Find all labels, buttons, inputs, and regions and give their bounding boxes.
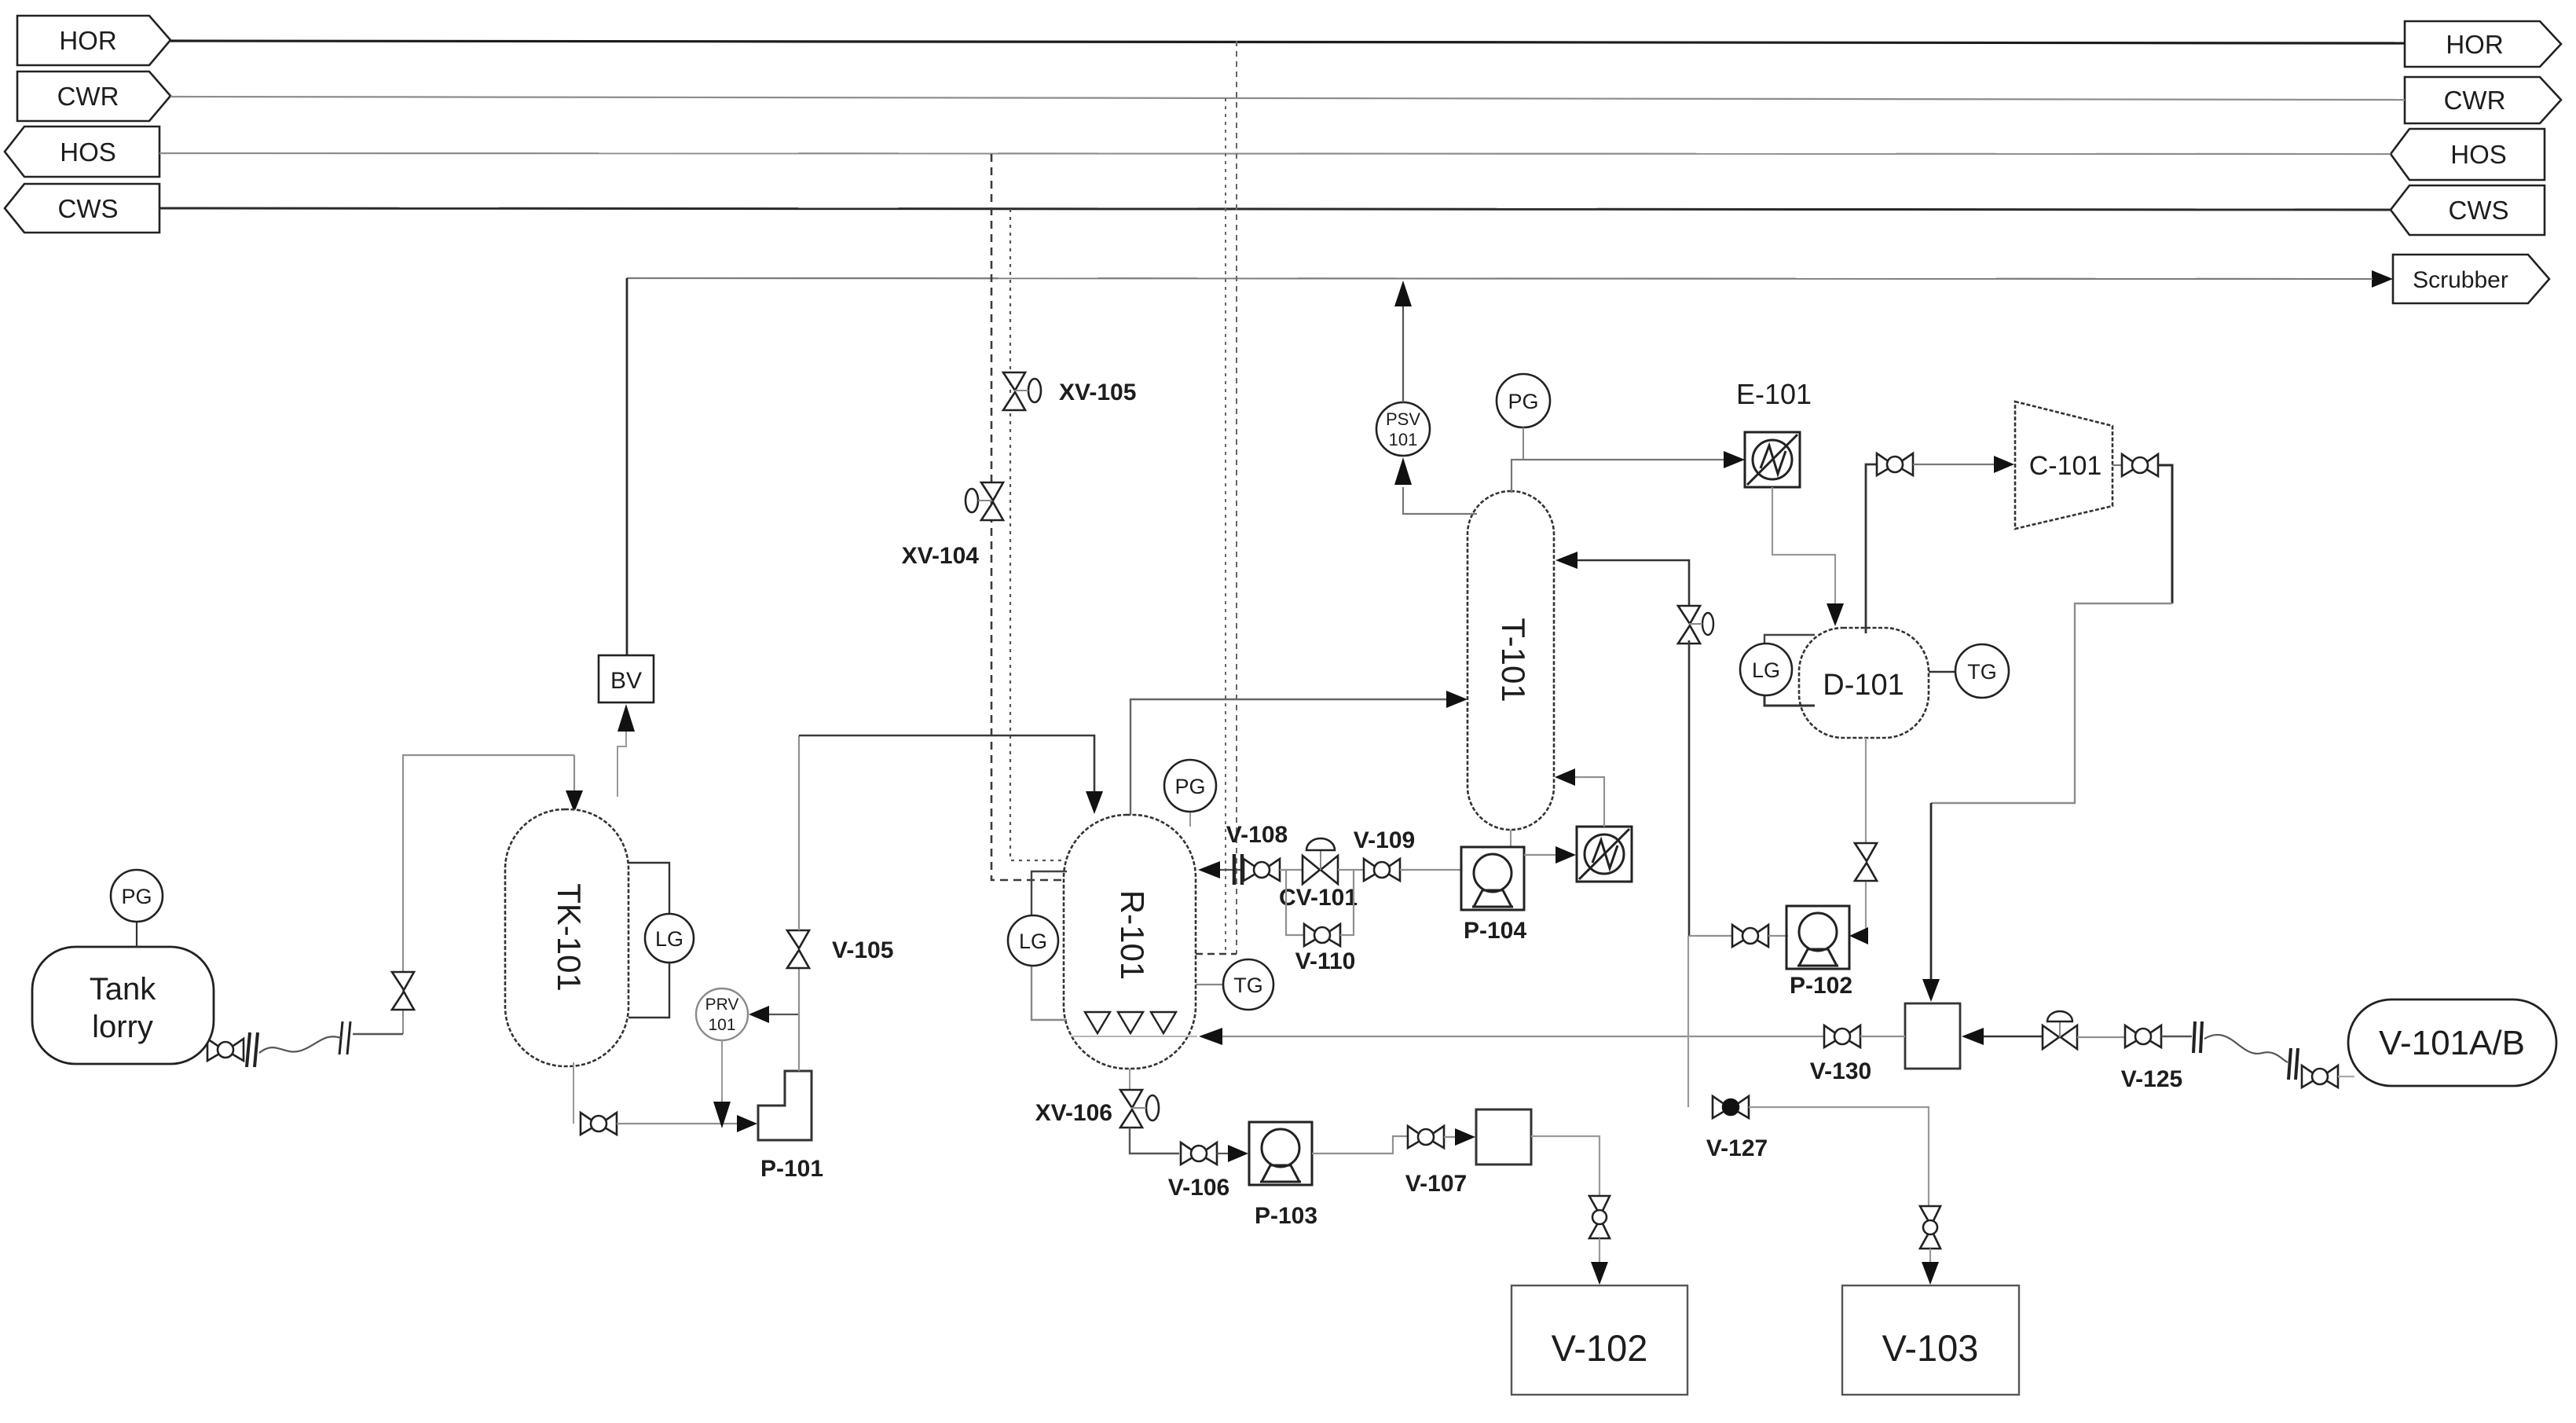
- valve V-130: [1824, 1025, 1860, 1047]
- svg-text:TK-101: TK-101: [551, 883, 588, 992]
- svg-text:XV-104: XV-104: [902, 543, 980, 569]
- wire reflux riser: [1688, 640, 1691, 936]
- wire into V-103: [1929, 1249, 1931, 1263]
- wire into V-101A/B: [2338, 1076, 2354, 1077]
- svg-text:CWR: CWR: [57, 82, 119, 111]
- flag Scrubber: [2393, 255, 2549, 303]
- wire TK-101 vent: [617, 732, 626, 797]
- arrow feed into R-101 top: [1086, 791, 1103, 814]
- wire valve to C-101: [1913, 464, 1996, 465]
- wire reboiler vapor return: [1573, 777, 1604, 827]
- valve V-107: [1408, 1126, 1444, 1148]
- svg-text:E-101: E-101: [1736, 378, 1812, 410]
- drum D-101: [1799, 628, 1929, 738]
- arrow into P-102 suction: [1849, 927, 1868, 944]
- wire V-108 to CV-101: [1280, 869, 1303, 871]
- svg-text:V-105: V-105: [832, 937, 893, 963]
- valve V-106: [1181, 1142, 1217, 1164]
- svg-text:Scrubber: Scrubber: [2413, 267, 2508, 293]
- svg-text:CV-101: CV-101: [1279, 885, 1358, 911]
- hose coupling ticks at tank: [247, 1032, 258, 1067]
- svg-text:V-102: V-102: [1552, 1327, 1648, 1369]
- arrow into mixer tee: [1922, 979, 1940, 1002]
- wire V-130 to mixer: [1860, 1036, 1905, 1037]
- wire mixer to control valve: [1984, 1036, 2043, 1038]
- valve V-105: [787, 930, 809, 968]
- svg-text:HOS: HOS: [2450, 140, 2507, 169]
- gauge LG (D-101): [1740, 635, 1815, 706]
- wire PRV drain: [721, 1040, 723, 1103]
- gauge TG (R-101): [1196, 959, 1273, 1010]
- svg-text:T-101: T-101: [1495, 618, 1532, 702]
- valve V-110: [1304, 924, 1340, 946]
- wire P-102 discharge: [1689, 935, 1732, 937]
- hose coupling ticks: [339, 1021, 350, 1054]
- svg-text:TG: TG: [1233, 974, 1263, 997]
- wire E-101 to D-101: [1772, 487, 1835, 605]
- arrow into P-103: [1228, 1145, 1248, 1162]
- svg-text:HOR: HOR: [59, 26, 116, 55]
- valve on V-103 drop: [1920, 1206, 1940, 1249]
- wire P-101 discharge riser: [798, 969, 800, 1071]
- arrow vapor into T-101: [1555, 768, 1575, 786]
- wire reflux line: [1577, 560, 1689, 609]
- arrow PRV drain down: [713, 1102, 731, 1128]
- wire drop into mixer tee: [1930, 803, 1933, 981]
- wire BV riser: [626, 278, 628, 655]
- reflux arrow into T-101: [1555, 552, 1577, 569]
- svg-text:V-108: V-108: [1226, 822, 1288, 848]
- arrow into reboiler: [1555, 846, 1576, 864]
- svg-text:V-109: V-109: [1354, 827, 1415, 853]
- valve on V-102 drop: [1589, 1196, 1610, 1238]
- flag CWS left: [5, 184, 159, 233]
- wire HOR drop (dotted) to R-101: [1236, 41, 1237, 954]
- wire V-109 to P-104: [1400, 869, 1461, 871]
- wire V-106 to P-103: [1217, 1153, 1229, 1154]
- svg-text:lorry: lorry: [92, 1010, 153, 1044]
- svg-text:V-103: V-103: [1882, 1327, 1979, 1369]
- wire pot to V-102: [1531, 1136, 1599, 1196]
- svg-text:CWS: CWS: [58, 194, 119, 223]
- flexible hose: [259, 1036, 341, 1053]
- gauge PG (T-101): [1497, 374, 1550, 460]
- valve V-125: [2125, 1025, 2161, 1047]
- arrow into mixer from right: [1962, 1028, 1984, 1045]
- valve V-109: [1364, 859, 1400, 881]
- reboiler exchanger: [1577, 827, 1632, 882]
- valve XV-104: [966, 482, 1003, 520]
- wire feed header to R-101: [799, 735, 1094, 792]
- svg-text:XV-106: XV-106: [1035, 1100, 1112, 1126]
- control valve (N2 makeup): [2043, 1011, 2077, 1049]
- svg-text:101: 101: [708, 1016, 735, 1034]
- wire TK-101 drain: [573, 1062, 574, 1124]
- vessel TK-101: [505, 809, 628, 1066]
- svg-text:CWR: CWR: [2444, 86, 2506, 115]
- drain pot: [1476, 1109, 1531, 1164]
- svg-text:V-107: V-107: [1405, 1171, 1467, 1197]
- gauge PG (R-101): [1164, 760, 1216, 827]
- wire CV-101 bypass: [1286, 870, 1304, 935]
- svg-text:P-101: P-101: [760, 1156, 823, 1182]
- arrow into E-101: [1724, 451, 1745, 468]
- svg-text:LG: LG: [1019, 930, 1047, 953]
- wire PSV to scrubber header: [1402, 305, 1404, 402]
- svg-text:V-127: V-127: [1706, 1135, 1768, 1161]
- arrow into V-103: [1922, 1262, 1939, 1285]
- wire C-101 discharge loop (continuation): [1931, 603, 2172, 803]
- svg-text:Tank: Tank: [90, 972, 156, 1007]
- wire CV-101 to V-109: [1338, 869, 1365, 871]
- wire R-101 overhead to T-101: [1130, 699, 1449, 815]
- svg-text:P-103: P-103: [1255, 1203, 1317, 1229]
- valve P-102 discharge: [1732, 925, 1768, 947]
- pump P-103: [1249, 1122, 1312, 1185]
- wire drain to P-101: [617, 1123, 739, 1124]
- sparger nozzles in R-101: [1085, 1012, 1176, 1033]
- wire bottoms to P-102: [1865, 882, 1867, 936]
- svg-text:C-101: C-101: [2029, 451, 2102, 481]
- svg-text:PRV: PRV: [705, 996, 739, 1014]
- arrow into D-101: [1827, 603, 1844, 626]
- valve C-101 discharge: [2112, 454, 2158, 476]
- flag HOR left: [17, 16, 170, 65]
- control valve CV-101: [1303, 838, 1338, 884]
- arrow up into PSV: [1394, 457, 1412, 485]
- wire T-101 overhead to E-101: [1512, 460, 1725, 493]
- column T-101: [1468, 491, 1554, 830]
- svg-text:V-110: V-110: [1295, 948, 1356, 974]
- svg-text:BV: BV: [610, 668, 642, 694]
- gauge PG (tank lorry): [111, 870, 163, 947]
- svg-text:PG: PG: [1174, 775, 1205, 798]
- compressor C-101: [2015, 402, 2112, 529]
- svg-text:PG: PG: [121, 885, 152, 908]
- svg-text:CWS: CWS: [2449, 196, 2509, 225]
- spectacle blind: [1234, 854, 1242, 885]
- wire CWS drop (dashed) to R-101 jacket: [1010, 209, 1061, 860]
- wire into V-102: [1599, 1238, 1600, 1263]
- pump P-102: [1786, 906, 1849, 969]
- block valve BV: [599, 655, 654, 702]
- valve TK-101 drain: [581, 1113, 617, 1135]
- arrow into Scrubber flag: [2372, 270, 2393, 288]
- wire V-108 line: [1220, 869, 1244, 871]
- flag CWR right: [2405, 77, 2561, 123]
- arrow into R-101 side (recycle): [1199, 1028, 1222, 1045]
- wire P-103 discharge: [1312, 1136, 1407, 1153]
- valve XV-105: [1003, 372, 1041, 410]
- mixer tee box: [1905, 1003, 1960, 1069]
- arrow feed into TK-101 top: [566, 755, 583, 812]
- flag HOR right: [2405, 21, 2561, 67]
- svg-text:V-125: V-125: [2121, 1066, 2182, 1092]
- wire R-101 bottoms to V-106: [1130, 1128, 1179, 1153]
- svg-text:R-101: R-101: [1114, 890, 1151, 980]
- hose coupling ticks at V-101: [2288, 1048, 2298, 1080]
- condenser E-101: [1745, 432, 1800, 487]
- wire dashed stub into R-101 right: [1196, 953, 1237, 955]
- wire recycle to R-101: [1222, 1036, 1824, 1037]
- wire T-101 bottoms to P-104: [1510, 830, 1512, 847]
- wire T-101 to PSV: [1403, 487, 1477, 514]
- wire CWR drop (dotted) to R-101: [1225, 98, 1226, 954]
- wire hose to riser: [353, 1033, 403, 1035]
- svg-text:PSV: PSV: [1386, 409, 1420, 429]
- svg-text:V-106: V-106: [1168, 1175, 1229, 1201]
- arrow into PRV-101: [749, 1006, 769, 1023]
- arrow into P-101: [737, 1115, 757, 1132]
- wire D-101 to C-101 suction: [1866, 464, 1878, 633]
- wire V-127 to V-103: [1749, 1107, 1929, 1206]
- valve on reflux riser: [1678, 606, 1713, 644]
- valve at tank lorry nozzle: [207, 1039, 244, 1061]
- cylinder bank V-101A/B: [2348, 999, 2556, 1086]
- wire HOS drop (dashed) to R-101 jacket: [991, 154, 1061, 880]
- wire V-125 to coupling: [2161, 1036, 2192, 1037]
- gauge LG (R-101): [1008, 871, 1067, 1020]
- wire vent to Scrubber: [627, 278, 2373, 279]
- valve on unloading riser: [392, 972, 414, 1010]
- valve at V-101A/B: [2302, 1065, 2338, 1087]
- arrow feed into T-101: [1446, 691, 1468, 708]
- svg-text:LG: LG: [1752, 658, 1780, 682]
- valve V-127: [1713, 1096, 1749, 1118]
- wire HOS header: [159, 153, 2391, 154]
- wire C-101 discharge loop: [2158, 465, 2172, 603]
- arrow into V-102: [1591, 1262, 1608, 1285]
- flag CWR left: [17, 72, 170, 121]
- arrow up to scrubber line: [1394, 281, 1412, 306]
- wire V-107 to pot: [1444, 1136, 1457, 1138]
- gauge TG (D-101): [1929, 644, 2009, 698]
- pump P-104: [1461, 847, 1524, 910]
- svg-text:PG: PG: [1508, 390, 1538, 413]
- wire bypass return: [1340, 870, 1354, 935]
- wire sparger feed inside R-101: [1071, 1036, 1197, 1037]
- gauge LG (TK-101): [628, 863, 694, 1018]
- relief valve PRV-101: [696, 988, 748, 1040]
- arrow into C-101: [1994, 456, 2014, 473]
- arrow into pot: [1455, 1128, 1475, 1146]
- svg-text:101: 101: [1389, 430, 1418, 449]
- valve on D-101 bottoms: [1855, 843, 1877, 881]
- wire PRV tee from V-105 riser: [769, 1014, 799, 1015]
- wire to V-125: [2077, 1036, 2125, 1038]
- hose coupling ticks: [2193, 1021, 2202, 1053]
- wire tank lorry unloading line: [403, 755, 574, 1034]
- wire V-127 blowdown: [1687, 936, 1689, 1107]
- tank lorry: [32, 947, 214, 1064]
- valve XV-106: [1120, 1069, 1159, 1128]
- svg-text:P-104: P-104: [1464, 918, 1526, 944]
- valve C-101 suction: [1877, 453, 1913, 475]
- svg-text:LG: LG: [655, 927, 683, 951]
- flexible hose to V-101: [2204, 1035, 2288, 1062]
- svg-text:TG: TG: [1967, 660, 1997, 684]
- svg-text:HOS: HOS: [60, 138, 116, 167]
- wire P-104 to reboiler: [1524, 854, 1557, 856]
- relief valve PSV-101: [1376, 402, 1430, 456]
- tank V-103: [1842, 1285, 2019, 1395]
- svg-text:D-101: D-101: [1823, 669, 1904, 702]
- wire riser above V-105: [798, 735, 800, 930]
- svg-text:P-102: P-102: [1790, 973, 1852, 999]
- wire valve to P-102: [1768, 935, 1788, 937]
- pump P-101: [758, 1071, 812, 1140]
- svg-text:V-101A/B: V-101A/B: [2379, 1024, 2525, 1062]
- wire HOR header: [170, 41, 2405, 43]
- arrow up into BV: [617, 704, 635, 732]
- flag CWS right: [2391, 185, 2545, 235]
- arrow into R-101 from V-108 line: [1198, 861, 1220, 878]
- wire CWS header: [159, 208, 2391, 210]
- wire CWR header: [170, 97, 2405, 100]
- svg-text:HOR: HOR: [2446, 30, 2503, 59]
- flag HOS left: [5, 127, 159, 177]
- valve V-108: [1244, 859, 1280, 881]
- tank V-102: [1512, 1285, 1687, 1395]
- flag HOS right: [2391, 129, 2545, 180]
- wire D-101 bottoms: [1865, 738, 1867, 842]
- svg-text:V-130: V-130: [1810, 1058, 1871, 1084]
- vessel R-101: [1064, 815, 1196, 1069]
- svg-text:XV-105: XV-105: [1059, 380, 1136, 405]
